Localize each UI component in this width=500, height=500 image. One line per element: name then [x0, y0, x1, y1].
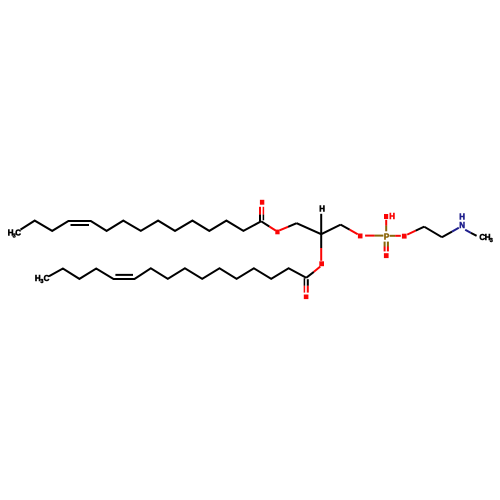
svg-text:C: C	[15, 229, 21, 238]
svg-text:H: H	[389, 212, 395, 221]
svg-text:N: N	[459, 221, 465, 230]
svg-text:H: H	[459, 212, 465, 221]
svg-text:H: H	[319, 205, 325, 214]
svg-text:3: 3	[490, 238, 493, 244]
svg-text:C: C	[44, 274, 50, 283]
svg-text:P: P	[384, 232, 390, 241]
